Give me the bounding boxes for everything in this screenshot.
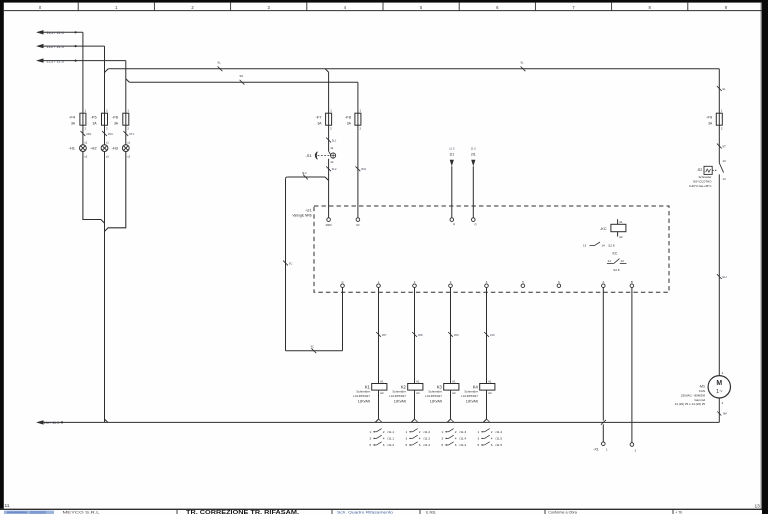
svg-text:x2: x2 [106, 155, 109, 159]
svg-text:LC1DPK047: LC1DPK047 [353, 394, 370, 398]
svg-text:2: 2 [491, 430, 493, 434]
title block divider x=332 [331, 509, 333, 514]
svg-text:9T: 9T [722, 145, 726, 149]
svg-text:9M: 9M [723, 412, 728, 416]
terminal X1:1 circle [602, 442, 606, 446]
svg-text:4: 4 [383, 436, 385, 440]
wire label tick on bus L1 left [218, 66, 223, 71]
neutral bus horizontal [43, 421, 719, 423]
wire bus N corner drop to F8 [357, 82, 359, 113]
svg-text:x2: x2 [127, 155, 130, 159]
title block divider x=177 [176, 509, 178, 514]
svg-text:2: 2 [383, 430, 385, 434]
switch -S1 actuator linkage dashed [318, 155, 331, 157]
svg-text:1L2 / 11.0: 1L2 / 11.0 [47, 44, 65, 49]
terminal C circle on U1 [341, 284, 345, 288]
wire fuse to lamp H2 [104, 125, 106, 145]
top black border bar [0, 0, 768, 3]
terminal X1:2 circle [630, 443, 634, 447]
svg-text:5: 5 [478, 443, 480, 447]
switch -S1 head circle with cross [331, 153, 336, 158]
bus N horizontal [129, 81, 358, 83]
svg-text:13: 13 [621, 259, 625, 263]
svg-text:3: 3 [370, 436, 372, 440]
svg-text:Varlogic NR6: Varlogic NR6 [292, 213, 311, 217]
wire U1 output to coil K3 [450, 288, 452, 384]
fuse F5 (104.5) [102, 113, 108, 125]
svg-text:4: 4 [419, 436, 421, 440]
title block divider x=545 [544, 509, 546, 514]
svg-text:Sch. Quadro Rifasamento: Sch. Quadro Rifasamento [337, 511, 393, 514]
wire label tick EH [717, 274, 722, 279]
wire label tick on branch [303, 175, 308, 180]
svg-text:-S2: -S2 [697, 168, 703, 172]
svg-text:307: 307 [382, 333, 387, 337]
svg-text:A1: A1 [619, 220, 623, 224]
wire loop bottom horizontal [286, 350, 343, 352]
svg-text:9N1: 9N1 [361, 167, 367, 171]
wire label tick 307 [376, 332, 381, 337]
svg-text:3: 3 [406, 436, 408, 440]
wire label tick 310 [484, 332, 489, 337]
wire 1L3 horizontal [43, 60, 126, 62]
svg-text:1: 1 [370, 430, 372, 434]
svg-text:9C: 9C [311, 345, 315, 349]
svg-text:M: M [716, 380, 722, 387]
terminal A circle on U1 [602, 284, 606, 288]
svg-text:-KC: -KC [600, 226, 607, 231]
ruler divider 9 [687, 3, 689, 11]
svg-text:14: 14 [722, 177, 726, 181]
neutral bus corner to motor [718, 398, 720, 423]
svg-text:-X1: -X1 [593, 447, 599, 451]
svg-text:x1: x1 [106, 140, 109, 144]
svg-text:A2: A2 [488, 391, 492, 395]
svg-text:9C: 9C [289, 261, 293, 265]
svg-text:-F5: -F5 [91, 115, 98, 120]
terminal 0V circle [356, 218, 360, 222]
svg-text:11: 11 [330, 146, 333, 150]
svg-text:-H1: -H1 [69, 146, 76, 151]
wire S2 to motor M1 [718, 174, 720, 376]
svg-text:+ 7b: + 7b [675, 511, 682, 514]
svg-text:11.0: 11.0 [471, 146, 477, 150]
title block divider x=673 [672, 509, 674, 514]
svg-text:9L: 9L [218, 60, 222, 64]
wire label tick 9R1 [81, 131, 86, 136]
svg-text:6: 6 [491, 443, 493, 447]
svg-text:-F8: -F8 [345, 115, 352, 120]
svg-text:11.0: 11.0 [449, 146, 455, 150]
svg-text:12KVAR: 12KVAR [466, 399, 479, 403]
wire branch corner rounded [286, 177, 288, 179]
wire branch horizontal to left [287, 176, 325, 178]
logo Schneider blue [4, 511, 54, 514]
incoming neutral arrow -1N [36, 420, 44, 424]
wire coil K4 to neutral bus [486, 390, 488, 419]
wire label tick on bus N [240, 80, 245, 85]
terminal 3 circle on U1 [449, 284, 453, 288]
terminal B circle on U1 [630, 284, 634, 288]
switch -S1 actuator head [315, 152, 317, 160]
svg-text:LC1DPK047: LC1DPK047 [425, 394, 442, 398]
ruler divider 8 [611, 3, 613, 11]
svg-text:14: 14 [608, 259, 612, 263]
svg-text:TR. CORREZIONE TR. RIFASAM.: TR. CORREZIONE TR. RIFASAM. [186, 510, 300, 514]
svg-text:6: 6 [419, 443, 421, 447]
wire label tick on F9 drop [717, 86, 722, 91]
net label dot 1L3 [75, 60, 77, 62]
wire terminal B down to X1:2 [631, 288, 633, 443]
svg-text:4: 4 [491, 436, 493, 440]
svg-text:0-60°C-Set+45°C: 0-60°C-Set+45°C [689, 184, 711, 188]
svg-text:NSYCCOTHO: NSYCCOTHO [693, 180, 712, 184]
svg-text:12KVAR: 12KVAR [394, 399, 407, 403]
svg-text:5: 5 [406, 443, 408, 447]
junction tick K4 [486, 419, 490, 423]
svg-text:/11.3: /11.3 [423, 443, 430, 447]
relay coil -KC stub bottom [617, 232, 619, 237]
svg-text:MEYCO S.R.L: MEYCO S.R.L [63, 511, 100, 514]
junction tick K1 [378, 419, 382, 423]
svg-text:LC1DPK047: LC1DPK047 [461, 394, 478, 398]
svg-text:-H3: -H3 [111, 146, 118, 151]
svg-text:KC: KC [613, 252, 618, 256]
svg-text:/11.1: /11.1 [387, 430, 394, 434]
svg-text:Conforme a Obra: Conforme a Obra [548, 511, 577, 514]
bus L1 branch chamfer from SL2 line [105, 69, 109, 73]
left black border bar [0, 0, 4, 509]
ruler divider 3 [230, 3, 232, 11]
svg-text:5: 5 [370, 443, 372, 447]
wire U1 output to coil K4 [486, 288, 488, 384]
svg-text:x1: x1 [127, 140, 130, 144]
terminal I2 circle [472, 218, 476, 222]
svg-text:-F6: -F6 [112, 115, 119, 120]
wire label tick on left loop [283, 261, 288, 266]
svg-text:4: 4 [455, 436, 457, 440]
svg-text:x2: x2 [84, 155, 87, 159]
controller U1 dashed outline [314, 206, 669, 292]
wire up to terminal C [342, 288, 344, 351]
svg-text:FAN: FAN [699, 389, 705, 393]
svg-text:/11.3: /11.3 [459, 430, 466, 434]
svg-text:C: C [341, 280, 343, 284]
terminal 400V circle [327, 218, 331, 222]
thermostat -S2 contact blade [719, 163, 723, 173]
wire H3 down and join to H2 line [105, 152, 126, 232]
wire label tick 9S1 [102, 131, 107, 136]
wire SL1 vertical to F4 [82, 32, 84, 113]
svg-text:/12.8: /12.8 [608, 244, 615, 248]
wire coil K1 to neutral bus [378, 390, 380, 419]
svg-text:1~: 1~ [716, 389, 723, 395]
incoming feed arrow -1L3 [36, 58, 44, 62]
svg-text:/11.5: /11.5 [495, 443, 502, 447]
wire label tick 9T1 [123, 131, 128, 136]
svg-text:A1: A1 [488, 379, 492, 383]
svg-text:B: B [631, 280, 633, 284]
svg-text:12KVAR: 12KVAR [358, 399, 371, 403]
terminal 2 circle on U1 [413, 284, 417, 288]
bus L1 horizontal [108, 68, 719, 70]
svg-text:/11.5: /11.5 [495, 436, 502, 440]
svg-text:A1: A1 [452, 379, 456, 383]
svg-text:11: 11 [5, 503, 10, 509]
svg-text:13: 13 [583, 244, 587, 248]
terminal I1 circle [450, 218, 454, 222]
svg-text:2: 2 [455, 430, 457, 434]
wire branch junction chamfer on S1 column [325, 177, 329, 181]
right page border line [760, 3, 762, 510]
bus L1 T-junction chamfer to F7 [325, 69, 328, 72]
bus L1 corner drop to F9 [718, 69, 720, 113]
wire H2 down to neutral bus [104, 152, 106, 423]
svg-text:400V: 400V [325, 223, 331, 227]
wire 1L2 horizontal [43, 45, 105, 47]
junction tick K2 [414, 419, 418, 423]
svg-text:A1: A1 [416, 379, 420, 383]
ruler band bottom line [4, 10, 762, 12]
svg-text:LC1DPK047: LC1DPK047 [389, 394, 406, 398]
incoming feed arrow -1L1 [36, 30, 44, 34]
svg-text:x1: x1 [84, 140, 87, 144]
svg-text:A2: A2 [416, 391, 420, 395]
terminal 4 circle on U1 [485, 284, 489, 288]
wire F7 to S1 [328, 125, 330, 151]
svg-text:-S1: -S1 [305, 153, 312, 158]
svg-text:1L1 / 11.0: 1L1 / 11.0 [47, 30, 65, 35]
fuse F4 (82.9) [80, 113, 86, 125]
incoming feed arrow -1L2 [36, 44, 44, 48]
fuse F9 (719.3) [716, 113, 722, 125]
svg-text:/11.2: /11.2 [387, 443, 394, 447]
wire 1I1 down to terminal [451, 166, 453, 218]
wire label tick below F7 [326, 138, 331, 143]
junction tick K3 [450, 419, 454, 423]
wire bus L1 drop to F7 [328, 72, 330, 113]
wire U1 output to coil K2 [414, 288, 416, 384]
lamp H2 [101, 145, 108, 152]
wire coil K2 to neutral bus [414, 390, 416, 419]
svg-text:12: 12 [330, 160, 334, 164]
wire label tick on loop bottom [311, 348, 316, 353]
wire label tick on F8 column [356, 166, 361, 171]
svg-text:/11.1: /11.1 [387, 436, 394, 440]
svg-text:-F7: -F7 [316, 115, 323, 120]
svg-text:3: 3 [478, 436, 480, 440]
svg-text:1I1: 1I1 [449, 153, 454, 157]
ruler divider 4 [306, 3, 308, 11]
svg-text:EH: EH [722, 275, 726, 279]
lamp H3 [122, 145, 129, 152]
svg-text:9T1: 9T1 [129, 132, 134, 136]
svg-text:1: 1 [406, 430, 408, 434]
relay coil -KC stub top [617, 219, 619, 224]
title block top line [0, 508, 762, 510]
svg-text:/11.4: /11.4 [495, 430, 502, 434]
wire label tick 308 [412, 332, 417, 337]
svg-text:A2: A2 [380, 391, 384, 395]
svg-text:12KVAR: 12KVAR [430, 399, 443, 403]
switch -S1 contact blade [329, 151, 334, 159]
fuse F6 (125.8) [123, 113, 129, 125]
svg-text:1: 1 [478, 430, 480, 434]
terminal 6 circle on U1 [557, 284, 561, 288]
wire SL3 vertical to F6 [125, 61, 127, 114]
svg-text:6: 6 [455, 443, 457, 447]
ruler divider 2 [153, 3, 155, 11]
svg-text:/11.4: /11.4 [459, 436, 466, 440]
wire S1 down to U1 400V terminal [328, 159, 330, 218]
wire F9 to S2 [718, 125, 720, 163]
svg-text:A2: A2 [619, 235, 623, 239]
right black border bar [762, 0, 768, 514]
svg-text:0V: 0V [356, 223, 359, 227]
ruler divider 5 [382, 3, 384, 11]
net label dot 1N [61, 421, 63, 423]
svg-text:-F4: -F4 [69, 115, 76, 120]
ruler divider 1 [77, 3, 79, 11]
lamp H1 [80, 145, 87, 152]
thermostat -S2 body box [704, 166, 712, 174]
ruler divider 6 [458, 3, 460, 11]
svg-text:308: 308 [418, 333, 423, 337]
svg-text:14: 14 [602, 244, 606, 248]
wire 1L1 horizontal [43, 31, 83, 33]
svg-text:2I1: 2I1 [471, 153, 476, 157]
svg-text:14 (20) l/5 e 14 (20) l/5: 14 (20) l/5 e 14 (20) l/5 [675, 402, 706, 406]
svg-text:9L2: 9L2 [302, 171, 307, 175]
svg-text:9R1: 9R1 [86, 132, 92, 136]
svg-text:-H2: -H2 [90, 146, 97, 151]
svg-text:9N: 9N [240, 74, 244, 78]
net label dot 1L1 [75, 31, 77, 33]
wire 2I1 down to terminal [472, 166, 474, 218]
svg-text:9S1: 9S1 [108, 132, 113, 136]
input arrow 1I1 [450, 160, 454, 166]
wire SL2 vertical to F5 [104, 46, 106, 113]
svg-text:-U1: -U1 [305, 207, 312, 212]
svg-text:-M1: -M1 [699, 385, 705, 389]
wire label tick 309 [448, 332, 453, 337]
relay coil -KC rectangle [611, 224, 626, 231]
wire coil K3 to neutral bus [450, 390, 452, 419]
title block divider x=420 [419, 509, 421, 514]
svg-text:A2: A2 [452, 391, 456, 395]
svg-text:9L: 9L [521, 60, 525, 64]
svg-text:3: 3 [442, 436, 444, 440]
svg-text:1L3 / 11.0: 1L3 / 11.0 [47, 58, 65, 63]
wire H1 down and join to H2 line [83, 152, 105, 224]
wire terminal A down to X1:1 with bus hop [602, 288, 604, 421]
svg-text:2: 2 [419, 430, 421, 434]
fuse F7 (328.6) [326, 113, 332, 125]
wire F8 down to 0V terminal [357, 125, 359, 218]
svg-text:A: A [602, 280, 604, 284]
svg-text:5: 5 [442, 443, 444, 447]
svg-text:/11.2: /11.2 [423, 430, 430, 434]
svg-text:6: 6 [383, 443, 385, 447]
junction chamfer H2 to neutral bus [105, 419, 108, 422]
fuse F8 (357.9) [355, 113, 361, 125]
wire U1 output to coil K1 [378, 288, 380, 384]
svg-text:310: 310 [490, 333, 495, 337]
svg-text:A1: A1 [380, 379, 384, 383]
svg-text:Gammd: Gammd [694, 398, 705, 402]
svg-text:IL N3L: IL N3L [426, 511, 436, 514]
svg-text:9L2: 9L2 [332, 167, 337, 171]
wire label tick below S1 [326, 166, 331, 171]
svg-text:13: 13 [722, 159, 726, 163]
ruler divider 7 [534, 3, 536, 11]
svg-text:/11.4: /11.4 [459, 443, 466, 447]
terminal 5 circle on U1 [521, 284, 525, 288]
hop tick at neutral crossing A [601, 420, 606, 425]
svg-text:309: 309 [454, 333, 459, 337]
wire label tick motor neutral [717, 412, 721, 416]
svg-text:9L1: 9L1 [332, 139, 337, 143]
svg-text:-F9: -F9 [706, 115, 713, 120]
svg-text:9L: 9L [722, 87, 726, 91]
bus N branch chamfer from SL3 line [126, 79, 130, 82]
motor M1 circle [708, 376, 730, 398]
terminal 1 circle on U1 [377, 284, 381, 288]
svg-text:230VAC - 80M3/H: 230VAC - 80M3/H [681, 393, 705, 397]
wire left loop vertical [285, 179, 287, 351]
wire label tick on bus L1 right [521, 66, 526, 71]
svg-text:1: 1 [442, 430, 444, 434]
input arrow 2I1 [471, 160, 475, 166]
wire fuse to lamp H1 [82, 125, 84, 145]
svg-text:/12.8: /12.8 [613, 268, 620, 272]
svg-text:/11.2: /11.2 [423, 436, 430, 440]
thermostat dashed link [712, 169, 717, 171]
wire label tick above S2 [717, 144, 722, 149]
net label dot 1L2 [75, 45, 77, 47]
svg-text:Schneider: Schneider [698, 175, 711, 179]
wire fuse to lamp H3 [125, 125, 127, 145]
